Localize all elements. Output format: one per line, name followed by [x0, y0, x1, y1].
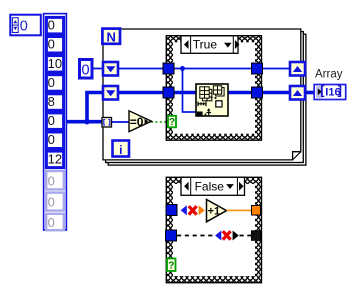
svg-text:]: ] [338, 83, 342, 98]
tunnel case L2 [163, 87, 174, 98]
small grid shadow [216, 88, 224, 96]
array constant shell [44, 14, 67, 230]
wire: case R1 to right SR1 (thin) [261, 68, 291, 70]
wire: SR2 to case tunnel L2 (thick) [118, 91, 165, 95]
dashed broken wire right part [240, 235, 253, 237]
for loop frame 3 (back page) [108, 34, 306, 165]
broken wire arrow left (blue) [181, 205, 187, 215]
svg-text:0: 0 [48, 173, 55, 188]
svg-text:False: False [195, 180, 225, 194]
for loop frame 2 (middle page) [106, 32, 304, 163]
tunnel case L1 [163, 63, 174, 74]
svg-text:12: 12 [48, 151, 62, 166]
i box [113, 141, 130, 157]
wire: 0 constant to shift register 1 (thin) [93, 68, 104, 70]
wire: branch from top wire down to icon index input [182, 69, 184, 113]
for loop frame 1 (front page with folded corner) [103, 29, 301, 160]
fold diagonal [293, 152, 301, 160]
N box [102, 29, 120, 45]
svg-text:i: i [119, 143, 122, 157]
big grid [200, 87, 209, 98]
svg-text:0: 0 [48, 132, 55, 147]
svg-text:0: 0 [48, 75, 55, 90]
wire: branch up to left shift register 2 (thick) [85, 93, 89, 122]
selector terminal ? on False case [167, 259, 176, 272]
black square [197, 112, 203, 116]
right shift register 2 [290, 86, 305, 100]
svg-text:0: 0 [82, 62, 90, 78]
svg-text:?: ? [169, 117, 175, 128]
wire: =0 to case selector, green dashed [151, 121, 168, 123]
case structure True: border ring [166, 36, 261, 141]
tunnel case R1 [252, 63, 263, 74]
svg-text:0: 0 [48, 215, 55, 230]
left shift register 1 [103, 62, 118, 76]
junction dot on top wire [180, 66, 185, 71]
Replace Array Subset icon [196, 84, 228, 116]
big grid shadow [202, 89, 211, 100]
svg-text:0: 0 [20, 18, 28, 34]
black tunnel row2 [252, 231, 261, 241]
case True label box [181, 36, 239, 54]
orange wire [227, 209, 253, 211]
wire: array constant to loop tunnel (thick) [66, 120, 103, 124]
small square [216, 101, 222, 107]
svg-text:Array: Array [315, 68, 343, 80]
False row1: left tunnel [166, 205, 177, 216]
broken wire arrow right (orange) [199, 205, 205, 215]
tunnel case R2 [252, 87, 263, 98]
svg-text:+1: +1 [208, 206, 221, 218]
svg-text:=0: =0 [130, 115, 144, 129]
right shift register 1 [290, 62, 305, 76]
svg-text:0: 0 [48, 18, 55, 33]
wire: icon to right tunnel (thick) [227, 91, 252, 95]
False row2: left tunnel [166, 230, 177, 241]
dot and plus-arrow [205, 114, 207, 116]
wire: case R2 to right SR2 (thick) [261, 91, 291, 95]
equal to zero comparison [129, 111, 152, 132]
dots [211, 97, 213, 99]
svg-text:N: N [107, 30, 116, 45]
grayed array elements [46, 171, 64, 230]
wire: bottom wire left tunnel to icon (thick) [172, 91, 197, 95]
orange tunnel [252, 206, 261, 216]
index display control (top-left) [10, 15, 41, 36]
broken wire arrow right (black) row2 [233, 231, 239, 241]
array elements [46, 17, 63, 167]
Array I16 terminal [314, 83, 346, 100]
wire: right SR2 to Array terminal (thick) [304, 91, 315, 95]
case structure False: border ring [166, 177, 261, 282]
selector terminal ? on True case [168, 116, 176, 128]
left shift register 2 [103, 86, 118, 100]
wire: top wire through case (thin) [172, 68, 252, 70]
svg-text:True: True [193, 38, 218, 52]
svg-text:8: 8 [48, 94, 55, 109]
case False label box [181, 177, 245, 195]
broken wire arrow left (blue) row2 [215, 231, 221, 241]
index glyph [198, 103, 207, 105]
red X row2 [223, 231, 231, 239]
red X row1 [189, 206, 197, 214]
svg-text:0: 0 [48, 195, 55, 210]
svg-text:0: 0 [48, 113, 55, 128]
wire: loop tunnel to =0 (thin) [110, 121, 130, 123]
small grid [213, 86, 221, 94]
svg-text:0: 0 [48, 37, 55, 52]
svg-text:?: ? [168, 261, 174, 272]
increment +1 function [207, 200, 227, 222]
indexing tunnel [] [102, 118, 112, 128]
junction on array wire [84, 119, 90, 125]
wire: SR1 to case tunnel L1 (thin) [118, 68, 165, 70]
svg-text:10: 10 [48, 56, 62, 71]
dashed broken wire left part [177, 235, 215, 237]
0 constant [80, 60, 93, 79]
